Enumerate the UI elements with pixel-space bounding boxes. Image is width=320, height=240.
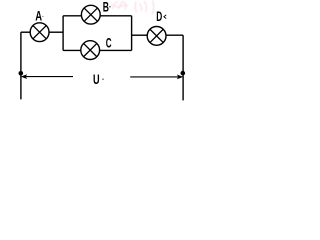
arrow U left head (21, 74, 28, 79)
lamp A (30, 23, 49, 42)
svg-text:C: C (106, 36, 112, 51)
wire right terminal stub below junction (182, 73, 184, 100)
chevron mark after D (164, 15, 166, 19)
arrow U right head (177, 75, 184, 80)
wire lamp D to right corner (166, 34, 183, 36)
wire bottom branch right segment (100, 49, 132, 51)
wire parallel box left vertical (62, 16, 64, 51)
wire parallel box right vertical (131, 16, 133, 51)
lamp D (147, 27, 166, 46)
junction dot right (181, 71, 186, 76)
wire left terminal stub below junction (20, 73, 22, 99)
small speck after U (102, 79, 103, 80)
wire top branch left segment (63, 15, 81, 17)
wire left vertical down to junction (20, 32, 22, 73)
svg-text:U: U (93, 72, 100, 87)
junction dot left (19, 71, 24, 76)
wire bottom branch left segment (63, 49, 81, 51)
wire lamp A to parallel box (49, 31, 63, 33)
wire box to lamp D (132, 34, 148, 36)
lamp B (81, 5, 100, 24)
svg-text:D: D (156, 9, 162, 24)
svg-text:A: A (35, 8, 42, 23)
wire left lead from lamp A to corner (21, 31, 30, 33)
small speck after A (42, 16, 43, 17)
arrow U right shaft (130, 76, 178, 78)
lamp C (81, 41, 100, 60)
wire top branch right segment (100, 15, 131, 17)
wire right vertical down to junction (182, 35, 184, 73)
arrow U left shaft (26, 76, 74, 78)
small speck after B (109, 6, 110, 7)
svg-text:B: B (103, 0, 109, 15)
